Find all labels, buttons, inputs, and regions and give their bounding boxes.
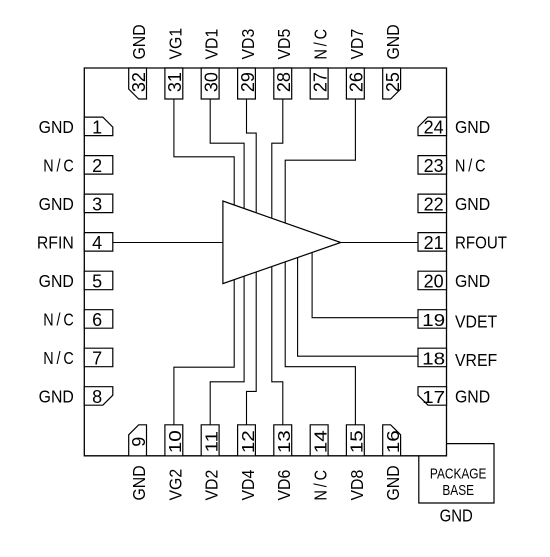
svg-text:BASE: BASE xyxy=(442,482,474,498)
svg-text:VD3: VD3 xyxy=(238,29,258,60)
svg-text:1: 1 xyxy=(92,118,102,138)
svg-text:GND: GND xyxy=(39,271,74,291)
svg-text:25: 25 xyxy=(383,72,403,92)
svg-text:GND: GND xyxy=(129,465,149,500)
svg-text:GND: GND xyxy=(129,24,149,59)
svg-text:N / C: N / C xyxy=(311,470,331,501)
svg-text:3: 3 xyxy=(92,195,102,215)
svg-text:32: 32 xyxy=(129,72,149,92)
svg-text:30: 30 xyxy=(202,72,222,92)
svg-text:20: 20 xyxy=(424,272,444,292)
svg-text:24: 24 xyxy=(424,118,444,138)
svg-text:17: 17 xyxy=(422,387,445,407)
svg-text:VG2: VG2 xyxy=(165,469,185,501)
svg-text:4: 4 xyxy=(92,233,102,253)
svg-text:26: 26 xyxy=(347,72,367,92)
svg-text:VD1: VD1 xyxy=(202,29,222,60)
svg-text:22: 22 xyxy=(424,195,444,215)
svg-text:N / C: N / C xyxy=(43,349,74,369)
svg-text:VG1: VG1 xyxy=(165,28,185,60)
svg-text:11: 11 xyxy=(202,431,222,452)
svg-text:VREF: VREF xyxy=(455,350,497,370)
svg-text:RFOUT: RFOUT xyxy=(455,232,507,253)
svg-text:18: 18 xyxy=(422,349,445,369)
svg-text:GND: GND xyxy=(39,194,74,214)
svg-text:29: 29 xyxy=(238,72,258,92)
svg-text:16: 16 xyxy=(383,430,403,453)
svg-text:5: 5 xyxy=(92,272,102,292)
svg-text:PACKAGE: PACKAGE xyxy=(430,465,487,481)
svg-text:GND: GND xyxy=(455,271,490,291)
svg-text:8: 8 xyxy=(92,387,102,407)
svg-text:GND: GND xyxy=(455,387,490,407)
svg-text:N / C: N / C xyxy=(43,310,74,330)
svg-text:N / C: N / C xyxy=(311,29,331,60)
svg-text:31: 31 xyxy=(165,72,185,92)
svg-text:N / C: N / C xyxy=(455,156,486,176)
svg-text:13: 13 xyxy=(274,430,294,453)
svg-text:VD8: VD8 xyxy=(347,470,367,501)
svg-text:15: 15 xyxy=(347,430,367,453)
svg-text:10: 10 xyxy=(165,430,185,453)
svg-text:GND: GND xyxy=(383,465,403,500)
svg-text:28: 28 xyxy=(274,72,294,92)
svg-text:GND: GND xyxy=(455,117,490,137)
svg-text:23: 23 xyxy=(424,156,444,176)
svg-text:2: 2 xyxy=(92,156,102,176)
svg-text:6: 6 xyxy=(92,310,102,330)
svg-text:VD4: VD4 xyxy=(238,470,258,501)
svg-text:GND: GND xyxy=(39,117,74,137)
svg-text:GND: GND xyxy=(455,194,490,214)
svg-text:12: 12 xyxy=(238,430,258,453)
svg-text:GND: GND xyxy=(383,24,403,59)
svg-text:19: 19 xyxy=(422,310,445,330)
svg-text:VDET: VDET xyxy=(455,312,497,332)
svg-text:RFIN: RFIN xyxy=(37,233,74,253)
svg-text:VD6: VD6 xyxy=(274,470,294,501)
svg-text:GND: GND xyxy=(440,506,473,525)
svg-text:14: 14 xyxy=(311,430,331,453)
svg-text:7: 7 xyxy=(92,349,102,369)
svg-text:VD5: VD5 xyxy=(274,29,294,60)
svg-text:N / C: N / C xyxy=(43,156,74,176)
svg-text:21: 21 xyxy=(424,233,444,253)
svg-text:GND: GND xyxy=(39,387,74,407)
svg-text:VD2: VD2 xyxy=(202,470,222,501)
svg-text:VD7: VD7 xyxy=(347,29,367,60)
svg-text:27: 27 xyxy=(310,72,330,92)
svg-text:9: 9 xyxy=(129,437,149,447)
